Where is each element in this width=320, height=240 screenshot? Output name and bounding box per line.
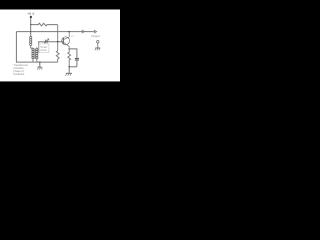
svg-text:Output: Output: [91, 34, 100, 38]
svg-text:feedback: feedback: [13, 72, 25, 76]
svg-text:+9 V: +9 V: [27, 12, 35, 16]
svg-text:Q1: Q1: [71, 35, 75, 37]
svg-text:circuit: circuit: [40, 49, 47, 52]
